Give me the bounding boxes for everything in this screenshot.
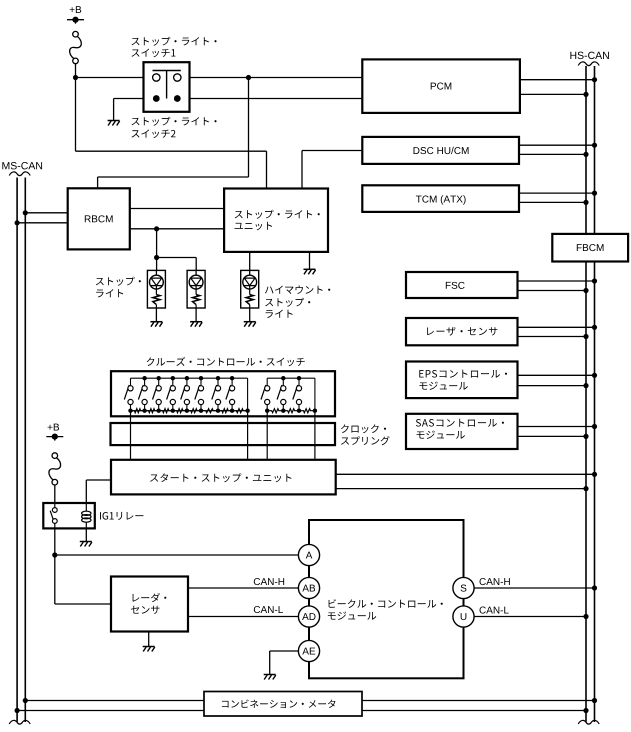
module FSC box <box>406 272 518 298</box>
label start stop unit <box>150 473 291 482</box>
lamp: stop light 1 (LED) <box>147 270 165 308</box>
junction meter upper on HS-CAN <box>592 698 597 703</box>
junction SAS CAN-H <box>592 424 597 429</box>
wire: EPS CAN-L to HS-CAN <box>518 385 587 387</box>
wire: SAS CAN-H to HS-CAN <box>518 426 595 428</box>
label FSC <box>446 282 465 289</box>
component clock spring box <box>111 423 336 445</box>
relay IG1 coil <box>85 503 87 512</box>
ground (IG1 relay coil) <box>80 541 92 543</box>
label PCM <box>431 83 452 90</box>
wire+ground stop light 1 <box>155 308 157 322</box>
wire: +B feed to stop light switch and PCM (horizontal) <box>76 77 363 79</box>
wire: VCM pin S CAN-H to HS-CAN <box>474 587 594 589</box>
junction meter upper on MS-CAN <box>23 698 28 703</box>
module stop light unit box <box>224 189 328 252</box>
junction at +B feed split <box>73 75 78 80</box>
ground (VCM pin AE) <box>264 674 276 676</box>
wire: +B branch drop to stop light unit <box>266 151 268 188</box>
wire: combination meter to HS-CAN (upper) <box>362 700 595 702</box>
MS-CAN break symbol top <box>9 172 30 176</box>
label RBCM <box>85 215 113 222</box>
junction EPS CAN-L <box>583 383 588 388</box>
wire: SAS CAN-L to HS-CAN <box>518 435 587 437</box>
label high-mount stop light <box>265 285 330 293</box>
label TCM (ATX) <box>416 195 466 204</box>
lamp: high-mount stop light (LED) <box>241 270 259 308</box>
module RBCM box <box>68 188 130 249</box>
label stop light <box>96 277 141 286</box>
junction FSC CAN-H <box>592 278 597 283</box>
junction TCM CAN-H <box>592 191 597 196</box>
junction on switch output wire <box>246 75 251 80</box>
junction laser CAN-H <box>592 325 597 330</box>
wire+ground high-mount stop light <box>249 308 251 322</box>
junction TCM CAN-L <box>583 200 588 205</box>
wire: fuse F2 to IG1 relay <box>54 485 56 503</box>
wire: drop into RBCM top <box>97 177 99 188</box>
wire: stop light unit ground drop <box>309 252 311 269</box>
wire: MS-CAN to RBCM (lower) <box>17 222 68 224</box>
net HS-CAN bus line 1 (CAN-L) <box>585 66 587 722</box>
label CAN-H (right) <box>480 578 510 585</box>
module start stop unit box <box>111 460 336 495</box>
junction DSC CAN-H <box>592 143 597 148</box>
wire: laser CAN-H to HS-CAN <box>518 326 595 328</box>
MS-CAN break symbol bottom <box>9 720 30 724</box>
wire: junction down toward RBCM <box>248 78 250 178</box>
label clock spring <box>341 424 386 433</box>
wire: RBCM to stop light unit (lower) <box>130 228 224 230</box>
wire: VCM pin AE to ground <box>270 650 299 652</box>
ground (stop light unit) <box>304 268 316 270</box>
ground (radar sensor) <box>143 646 155 648</box>
wire: fuse F1 to junction <box>75 64 77 78</box>
module EPS control module box <box>406 362 518 399</box>
cruise switch resistor ladder <box>131 409 145 413</box>
junction lamp feed split <box>154 255 159 260</box>
wire: PCM CAN-H to HS-CAN <box>520 79 595 81</box>
junction start stop CAN-H <box>592 472 597 477</box>
junction RBCM lower on MS-CAN <box>15 220 20 225</box>
wire: IG1 output down to radar sensor <box>54 555 56 604</box>
cruise switch contacts (11 switches) <box>130 378 132 386</box>
wire: FSC CAN-L to HS-CAN <box>518 290 587 292</box>
label radar sensor <box>133 593 167 602</box>
label CAN-L (right) <box>480 607 509 614</box>
switch SW1 upper contacts <box>153 74 160 81</box>
label IG1 relay <box>100 512 143 520</box>
junction FSC CAN-L <box>583 288 588 293</box>
ground (stop light switch 2) <box>108 120 120 122</box>
component cruise control switch outer box <box>111 371 335 416</box>
junction on RBCM lower wire (lamp feed) <box>154 226 159 231</box>
wire: PCM CAN-L to HS-CAN <box>520 93 586 95</box>
cruise switch junction dots <box>128 409 132 413</box>
pin U (VCM) <box>453 606 474 627</box>
wire: radar sensor ground drop <box>148 632 150 647</box>
junction SAS CAN-L <box>583 434 588 439</box>
label CAN-L (left) <box>254 606 283 613</box>
wire: start stop unit CAN-H to HS-CAN <box>336 473 595 475</box>
label EPS control module <box>419 370 507 378</box>
module SAS control module box <box>406 414 518 449</box>
wire: radar CAN-H to VCM pin AB <box>188 587 299 589</box>
module PCM box <box>362 59 520 113</box>
wire: combination meter to MS-CAN (upper) <box>25 700 204 702</box>
wire: branch down from +B junction <box>75 78 77 152</box>
wire: TCM CAN-H to HS-CAN <box>519 192 595 194</box>
wire: lamp feed to stop light 1 <box>156 258 158 271</box>
wire: start stop unit to IG1 relay coil <box>86 479 111 481</box>
wire: EPS CAN-H to HS-CAN <box>518 374 595 376</box>
power terminal +B (battery feed 1) <box>70 6 81 13</box>
wire: TCM CAN-L to HS-CAN <box>519 201 586 203</box>
wire: FSC CAN-H to HS-CAN <box>518 280 595 282</box>
junction RBCM upper on MS-CAN <box>23 210 28 215</box>
wire: stop light switch 2 output (lower horizontal) <box>114 98 363 100</box>
junction PCM CAN-L on HS-CAN <box>583 92 588 97</box>
wire: lamp feed to stop light 2 <box>157 257 197 259</box>
lamp: stop light 2 (LED) <box>187 270 205 308</box>
wire: radar CAN-L to VCM pin AD <box>188 616 299 618</box>
switch SW1 actuator bar <box>153 70 181 72</box>
wire: start stop unit CAN-L to HS-CAN <box>336 488 586 490</box>
module TCM (ATX) box <box>362 185 519 212</box>
junction meter lower on MS-CAN <box>15 708 20 713</box>
label stop light switch 2 <box>132 117 217 126</box>
label stop light unit <box>235 210 320 219</box>
relay IG1 switch contacts <box>54 503 56 508</box>
wire: cruise switch output 3 <box>266 411 268 460</box>
pin AB (VCM) <box>298 577 319 598</box>
module DSC HU/CM box <box>362 137 519 164</box>
pin S (VCM) <box>453 577 474 598</box>
pin AD (VCM) <box>298 606 319 627</box>
power terminal +B (battery feed 2) <box>48 424 59 431</box>
junction EPS CAN-H <box>592 373 597 378</box>
wire: stop light unit to high-mount stop light <box>249 252 251 271</box>
junction VCM CAN-L <box>583 614 588 619</box>
wire: IG1 relay output down <box>54 528 56 555</box>
label DSC HU/CM <box>414 147 469 154</box>
cruise switch internal buses <box>131 377 248 379</box>
net HS-CAN bus line 2 (CAN-H) <box>594 66 596 722</box>
junction DSC CAN-L <box>583 152 588 157</box>
wire: cruise switch output 4 <box>314 411 316 460</box>
label laser sensor <box>427 327 497 336</box>
label SAS control module <box>416 419 504 427</box>
module laser sensor box <box>406 318 518 345</box>
module vehicle control module box <box>309 520 464 678</box>
wire: lamp feed down <box>156 229 158 258</box>
wire: stop light switch 2 to ground drop <box>113 99 115 121</box>
module FBCM box <box>552 234 628 262</box>
module radar sensor box <box>111 577 188 632</box>
wire: +B branch horizontal to stop light unit <box>76 150 267 152</box>
junction PCM CAN-H on HS-CAN <box>592 77 597 82</box>
junction VCM CAN-H <box>592 585 597 590</box>
wire: DSC HU/CM feed from stop light unit <box>302 150 362 152</box>
junction IG1 output split <box>52 552 57 557</box>
wire: horizontal toward RBCM top <box>98 176 249 178</box>
net MS-CAN bus line 1 (CAN-L) <box>16 178 18 723</box>
wire: combination meter to HS-CAN (lower) <box>362 710 586 712</box>
junction meter lower on HS-CAN <box>583 708 588 713</box>
pin AE (VCM) <box>298 640 319 661</box>
module combination meter box <box>204 692 362 717</box>
wire: RBCM to stop light unit (upper) <box>130 208 224 210</box>
HS-CAN break symbol bottom <box>578 720 599 724</box>
fuse F1 <box>70 36 82 58</box>
wire: laser CAN-L to HS-CAN <box>518 336 587 338</box>
junction start stop CAN-L <box>583 486 588 491</box>
junction laser CAN-L <box>583 334 588 339</box>
wire: IG1 relay output to VCM pin A <box>55 554 299 556</box>
label HS-CAN <box>570 52 609 59</box>
fuse F2 <box>49 458 61 480</box>
pin A (VCM) <box>298 544 319 565</box>
wire: DSC CAN-L to HS-CAN <box>519 153 586 155</box>
label cruise control switch <box>147 357 305 366</box>
switch SW1 lower contacts <box>153 95 160 102</box>
wire: DSC CAN-H to HS-CAN <box>519 144 595 146</box>
label CAN-H (left) <box>254 578 284 585</box>
label vehicle control module <box>329 599 443 608</box>
wire+ground stop light 2 <box>195 308 197 322</box>
relay IG1 box <box>43 503 95 528</box>
wire: cruise switch output 2 <box>247 411 249 460</box>
wire: VCM pin U CAN-L to HS-CAN <box>474 616 586 618</box>
label stop light switch 1 <box>132 37 217 46</box>
HS-CAN break symbol top <box>578 62 599 66</box>
switch SW1 (stop light switch) box <box>144 62 190 112</box>
label combination meter <box>222 700 336 709</box>
wire: cruise switch output 1 <box>130 411 132 460</box>
net MS-CAN bus line 2 (CAN-H) <box>24 178 26 723</box>
wire: IG1 coil to ground <box>85 528 87 541</box>
wire: MS-CAN to RBCM (upper) <box>25 212 67 214</box>
label FBCM <box>577 244 604 251</box>
wire: combination meter to MS-CAN (lower) <box>17 710 204 712</box>
label MS-CAN <box>2 162 42 169</box>
